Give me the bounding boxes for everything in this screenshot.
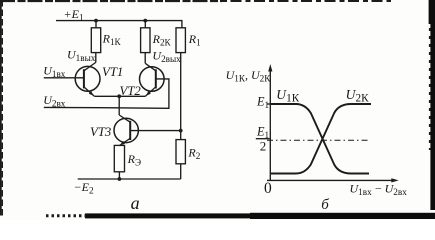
label x-axis U1вх - U2вх bbox=[350, 182, 408, 198]
wire R1K top stub bbox=[95, 21, 97, 28]
svg-text:R2К: R2К bbox=[152, 32, 172, 48]
wire VT3 base to divider node bbox=[130, 130, 181, 132]
resistor R2 bbox=[176, 140, 201, 164]
svg-text:U1К: U1К bbox=[276, 87, 300, 105]
wire emitter node to VT3 collector bbox=[118, 96, 120, 115]
svg-text:U2вх: U2вх bbox=[43, 93, 66, 109]
curve U1K bbox=[271, 104, 369, 174]
resistor RЭ bbox=[114, 145, 141, 171]
svg-text:а: а bbox=[131, 193, 140, 213]
svg-text:U2вых: U2вых bbox=[152, 48, 181, 64]
svg-text:VT3: VT3 bbox=[90, 125, 111, 139]
label а bbox=[131, 193, 140, 213]
label U1вых bbox=[67, 48, 96, 64]
svg-text:R2: R2 bbox=[187, 145, 200, 161]
level line E1/2 dash-dot bbox=[267, 139, 368, 141]
svg-text:U1вх − U2вх: U1вх − U2вх bbox=[350, 182, 408, 198]
svg-text:VT1: VT1 bbox=[102, 65, 123, 79]
svg-text:R1: R1 bbox=[188, 32, 201, 48]
svg-text:б: б bbox=[321, 197, 329, 213]
label б bbox=[321, 197, 329, 213]
wire -E2 bottom rail bbox=[78, 178, 181, 180]
y-axis U1K U2K bbox=[268, 64, 272, 180]
wire R2 to bottom rail bbox=[180, 164, 182, 179]
wire U2вх to VT2 base bbox=[44, 79, 169, 108]
label U1вх bbox=[43, 64, 66, 80]
label U1K curve bbox=[276, 87, 300, 105]
wire RЭ to bottom rail bbox=[118, 172, 120, 179]
svg-text:U2К: U2К bbox=[346, 87, 370, 105]
wire R1 to R2 divider bbox=[180, 53, 182, 140]
label U2вых bbox=[152, 48, 181, 64]
svg-text:−E2: −E2 bbox=[74, 180, 94, 196]
label -E2 bbox=[74, 180, 94, 196]
transistor VT3 bbox=[90, 115, 138, 147]
junction dot RЭ bottom bbox=[118, 177, 122, 181]
label E1/2 fraction bbox=[256, 124, 270, 153]
svg-text:R1К: R1К bbox=[102, 31, 122, 47]
wire common emitter rail bbox=[94, 95, 145, 97]
label +E1 bbox=[64, 7, 84, 23]
svg-text:+E1: +E1 bbox=[64, 7, 84, 23]
tick E1 level bbox=[267, 103, 273, 105]
curve U2K bbox=[271, 104, 371, 174]
label 0 origin bbox=[264, 180, 272, 197]
junction dot divider node bbox=[179, 129, 183, 133]
wire +E1 top rail to R1 bbox=[56, 21, 182, 28]
wire R2K top stub bbox=[144, 21, 146, 28]
svg-text:E1: E1 bbox=[256, 95, 270, 111]
resistor R2K bbox=[141, 28, 172, 53]
junction dot R2K top bbox=[143, 19, 147, 23]
junction dot emitter node bbox=[117, 94, 121, 98]
resistor R1K bbox=[91, 28, 121, 53]
svg-text:RЭ: RЭ bbox=[127, 152, 141, 168]
svg-text:U1вх: U1вх bbox=[43, 64, 66, 80]
transistor VT2 bbox=[120, 63, 165, 98]
svg-text:0: 0 bbox=[264, 180, 272, 197]
junction dot R1K top bbox=[94, 19, 98, 23]
label U2K curve bbox=[346, 87, 370, 105]
svg-text:2: 2 bbox=[260, 138, 267, 153]
transistor VT1 bbox=[75, 62, 123, 97]
label E1 bbox=[256, 95, 270, 111]
svg-text:U1К, U2К: U1К, U2К bbox=[226, 68, 272, 84]
resistor R1 bbox=[176, 28, 201, 53]
wire R1K bottom to VT1 collector bbox=[95, 53, 97, 63]
wire U1вх to VT1 base bbox=[44, 77, 84, 79]
label U2вх bbox=[43, 93, 66, 109]
x-axis U1вх-U2вх bbox=[267, 178, 399, 182]
label y-axis U1K, U2K bbox=[226, 68, 272, 84]
wire R2K bottom to VT2 collector bbox=[144, 53, 146, 64]
